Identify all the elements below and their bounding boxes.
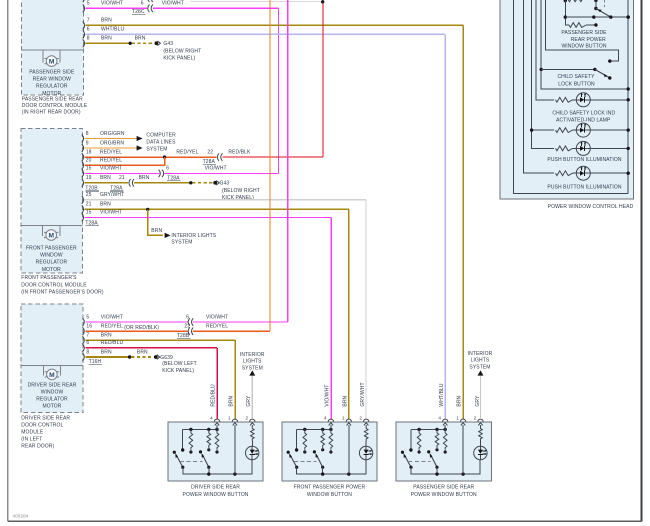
- svg-text:SYSTEM: SYSTEM: [146, 147, 167, 153]
- wire BRN pin21 long run: [85, 208, 349, 210]
- switch blade 2: [313, 450, 316, 453]
- svg-text:REAR DOOR): REAR DOOR): [21, 443, 54, 449]
- svg-text:6: 6: [87, 27, 90, 33]
- pin 2 entry of button at x=480.5: [478, 419, 483, 422]
- button: front passenger power window button: [282, 422, 377, 481]
- dashed BRN wire to ground G43: [132, 42, 154, 44]
- pin 2 entry of button at x=366.20000000000005: [364, 419, 369, 422]
- svg-text:20: 20: [86, 158, 92, 164]
- pin 1 entry of button at x=463.1: [460, 419, 465, 422]
- illumination resistor: [479, 425, 483, 441]
- svg-text:REGULATOR: REGULATOR: [36, 84, 68, 90]
- contact row wire y17: [565, 16, 628, 18]
- svg-text:7: 7: [86, 333, 89, 339]
- svg-text:PASSENGER SIDE: PASSENGER SIDE: [29, 69, 75, 75]
- wire RED/YEL from T28B to riser: [193, 330, 270, 332]
- pin 9 of module 2: [82, 144, 84, 152]
- svg-text:4: 4: [324, 416, 327, 421]
- svg-text:8: 8: [86, 349, 89, 355]
- svg-text:REGULATOR: REGULATOR: [36, 260, 68, 266]
- connector T28A pin22: [217, 153, 219, 161]
- arrow interior lights system button3: [478, 370, 484, 375]
- wire from resistor down to second resistor: [565, 0, 569, 25]
- arrow to interior lights system: [165, 233, 171, 238]
- pin 16 of module 3: [83, 327, 85, 335]
- module box: driver side rear door control module (in left rear door): [21, 304, 83, 413]
- splice junction pins 18/20: [163, 155, 166, 158]
- svg-text:RED/YEL: RED/YEL: [100, 158, 122, 164]
- svg-text:POWER WINDOW BUTTON: POWER WINDOW BUTTON: [183, 492, 249, 498]
- svg-text:BRN: BRN: [135, 36, 146, 42]
- wire RED/YEL riser to top of page: [269, 0, 271, 331]
- open contact dot below hinge: [594, 23, 597, 26]
- motor M1 passenger side rear window regulator motor: [21, 49, 83, 51]
- svg-text:6: 6: [186, 314, 189, 320]
- svg-text:G639: G639: [160, 355, 173, 361]
- connector T28A pin6 on VIO/WHT: [159, 170, 161, 178]
- svg-text:M: M: [48, 232, 54, 239]
- svg-text:GRY: GRY: [246, 395, 252, 407]
- svg-text:5: 5: [86, 314, 89, 320]
- pin 21 of module 2: [82, 205, 84, 213]
- right bus wire with corner to bottom rail: [627, 0, 629, 193]
- svg-text:(IN FRONT PASSENGER'S DOOR): (IN FRONT PASSENGER'S DOOR): [21, 289, 104, 295]
- pin 6 of module 3: [83, 344, 85, 352]
- contact dots on row y17: [592, 15, 595, 18]
- svg-text:RED/YEL: RED/YEL: [176, 149, 198, 155]
- wire ORG/BRN pin9 to computer data lines system: [85, 147, 137, 149]
- resistor R2 in button: [207, 429, 211, 447]
- wire VIO/WHT drop to front passenger button pin 4: [330, 217, 332, 419]
- push button illumination resistor row2: [556, 128, 573, 133]
- svg-text:VIO/WHT: VIO/WHT: [100, 210, 122, 216]
- pin 15 of module 2: [82, 169, 84, 177]
- svg-text:CHILD SAFETY: CHILD SAFETY: [557, 74, 595, 80]
- svg-text:8: 8: [87, 36, 90, 42]
- svg-text:6: 6: [141, 1, 144, 7]
- svg-text:1: 1: [342, 416, 345, 421]
- wire ORG/GRN pin8 to computer data lines system: [85, 138, 137, 140]
- resistor R2 in button: [321, 429, 325, 447]
- passenger side rear power window button resistor (cut at top): [565, 0, 568, 1]
- pin 1 drop wire: [348, 425, 350, 474]
- top bus node: [183, 428, 217, 430]
- wire BRN drop to driver rear button pin 1: [234, 340, 236, 419]
- svg-text:FRONT PASSENGER'S: FRONT PASSENGER'S: [21, 275, 77, 281]
- child safety lock ind LED: [576, 93, 590, 107]
- wire BRN pin19 to connector: [85, 182, 129, 184]
- svg-text:RED/YEL: RED/YEL: [100, 149, 122, 155]
- svg-text:RED/YEL: RED/YEL: [206, 324, 228, 330]
- svg-text:6: 6: [86, 340, 89, 346]
- svg-text:6: 6: [166, 166, 169, 172]
- svg-text:DRIVER SIDE REAR: DRIVER SIDE REAR: [28, 382, 77, 388]
- svg-text:DATA LINES: DATA LINES: [146, 140, 176, 146]
- svg-text:RED/BLU: RED/BLU: [211, 384, 217, 407]
- pin 6 of module 1: [83, 30, 85, 38]
- svg-text:22: 22: [207, 149, 213, 155]
- wire WHT/BLU pin6 long run to right: [86, 33, 446, 35]
- motor M2 front passenger window regulator motor: [21, 224, 83, 226]
- button: driver side rear power window button: [168, 422, 263, 481]
- pin 19 of module 2: [82, 179, 84, 187]
- illumination resistor: [364, 425, 368, 441]
- switch blade 2: [427, 450, 430, 453]
- svg-text:FRONT PASSENGER: FRONT PASSENGER: [26, 246, 77, 252]
- ganged switch dashed link: [408, 460, 430, 462]
- svg-text:M: M: [49, 59, 55, 66]
- svg-text:LIGHTS: LIGHTS: [243, 359, 262, 365]
- wire RED/BLK riser to top junction: [322, 2, 324, 157]
- resistor R2 in button: [435, 429, 439, 447]
- switch blade 1: [176, 455, 183, 468]
- svg-text:INTERIOR: INTERIOR: [468, 351, 493, 357]
- wire BRN pin7 to drop: [85, 339, 235, 341]
- ganged switch dashed link: [294, 460, 316, 462]
- push button illumination resistor row3: [556, 146, 573, 151]
- svg-text:400284: 400284: [13, 514, 29, 519]
- splice junction BRN pin8 module3: [128, 355, 131, 358]
- junction dot on contact row: [564, 15, 567, 18]
- wire GRY/WHT pin25 long run: [85, 199, 366, 201]
- connector T28B pin22: [188, 327, 190, 335]
- junction dot on bus C: [530, 128, 533, 131]
- ground G43 second (below right kick panel): [213, 181, 217, 185]
- push button illumination LED row2: [576, 123, 590, 137]
- svg-text:BRN: BRN: [101, 333, 112, 339]
- connector pin6 on VIO/WHT module3: [188, 318, 190, 326]
- wire RED/BLK from T28A to riser: [222, 156, 323, 158]
- svg-text:25: 25: [86, 192, 92, 198]
- svg-text:M: M: [49, 372, 55, 379]
- wire VIO/WHT vertical drop to module 2 pin 15 row: [278, 8, 280, 173]
- svg-text:WINDOW BUTTON: WINDOW BUTTON: [307, 492, 352, 498]
- bus wire A (leftmost) to bottom rail: [514, 0, 629, 193]
- svg-text:PASSENGER SIDE REAR: PASSENGER SIDE REAR: [413, 485, 474, 491]
- svg-text:7: 7: [87, 18, 90, 24]
- dashed BRN to ground G43: [192, 182, 213, 184]
- svg-text:9: 9: [86, 140, 89, 146]
- left pole drop: [410, 429, 412, 450]
- resistor R3 in button: [215, 429, 219, 449]
- push button illumination resistor row4: [556, 171, 573, 176]
- svg-text:BRN: BRN: [100, 175, 111, 181]
- svg-text:SYSTEM: SYSTEM: [171, 239, 192, 245]
- svg-text:REAR WINDOW: REAR WINDOW: [33, 77, 71, 83]
- svg-text:RED/BLU: RED/BLU: [101, 340, 124, 346]
- svg-text:VIO/WHT: VIO/WHT: [100, 166, 122, 172]
- pin 8 of module 2: [82, 135, 84, 143]
- svg-text:WINDOW: WINDOW: [41, 389, 64, 395]
- switch hinge of passenger rear window button: [595, 1, 597, 9]
- splice junction on BRN pin19: [189, 181, 192, 184]
- pin 1 entry of button at x=234.9: [232, 419, 237, 422]
- svg-text:ORG/BRN: ORG/BRN: [100, 140, 124, 146]
- second resistor of window button: [569, 23, 586, 28]
- top bus node: [411, 428, 445, 430]
- wire RED/YEL pin16 to connector: [85, 330, 187, 332]
- pin 8 of module 1: [83, 39, 85, 47]
- top bus node: [297, 428, 331, 430]
- splice junction on BRN: [129, 42, 132, 45]
- svg-text:21: 21: [119, 175, 125, 181]
- ground G639 (below left kick panel): [154, 355, 158, 359]
- svg-text:FRONT PASSENGER POWER: FRONT PASSENGER POWER: [294, 485, 366, 491]
- pin 8 of module 3: [83, 353, 85, 361]
- arrow to computer data lines system 2: [137, 145, 143, 150]
- svg-text:22: 22: [184, 324, 190, 330]
- svg-text:BRN: BRN: [457, 395, 463, 406]
- svg-text:BRN: BRN: [139, 175, 150, 181]
- svg-text:GRY/WHT: GRY/WHT: [360, 382, 366, 406]
- connector T28C: [148, 5, 150, 13]
- svg-text:(IN RIGHT REAR DOOR): (IN RIGHT REAR DOOR): [22, 109, 81, 115]
- dashed BRN to ground G639: [131, 356, 153, 358]
- bus wire C to illumination rows 2 and 3: [532, 0, 554, 148]
- svg-text:1: 1: [228, 416, 231, 421]
- svg-text:RED/YEL: RED/YEL: [101, 324, 123, 330]
- svg-text:1: 1: [456, 416, 459, 421]
- GRY wire to interior lights arrow button3: [480, 376, 482, 420]
- svg-text:VIO/WHT: VIO/WHT: [101, 314, 123, 320]
- wire VIO/WHT pin5 to connector T28C: [86, 7, 147, 9]
- svg-text:DRIVER SIDE REAR: DRIVER SIDE REAR: [191, 485, 240, 491]
- svg-text:MODULE: MODULE: [21, 429, 44, 435]
- svg-text:WINDOW BUTTON: WINDOW BUTTON: [561, 43, 606, 49]
- bus wire B to illumination row 4: [523, 0, 554, 173]
- resistor R1 in button: [189, 429, 193, 449]
- svg-text:WINDOW: WINDOW: [40, 253, 63, 259]
- svg-text:KICK PANEL): KICK PANEL): [163, 56, 195, 62]
- wire RED/YEL pin20 joining splice: [85, 157, 165, 165]
- svg-text:(OR RED/BLK): (OR RED/BLK): [124, 325, 159, 331]
- svg-text:DOOR CONTROL MODULE: DOOR CONTROL MODULE: [22, 103, 88, 109]
- svg-text:GRY/WHT: GRY/WHT: [100, 192, 124, 198]
- svg-text:DRIVER SIDE REAR: DRIVER SIDE REAR: [21, 415, 70, 421]
- left pole drop: [296, 429, 298, 450]
- wire BRN pin8 to splice: [86, 42, 131, 44]
- pin 20 of module 2: [82, 161, 84, 169]
- svg-text:PASSENGER SIDE REAR: PASSENGER SIDE REAR: [22, 97, 83, 103]
- svg-text:15: 15: [86, 210, 92, 216]
- svg-text:21: 21: [86, 202, 92, 208]
- splice junction on BRN pin21: [146, 208, 149, 211]
- illumination resistor: [251, 425, 255, 441]
- junction dot on bus E at switch feed: [540, 68, 543, 71]
- pin 15 T28A of module 2: [82, 213, 84, 221]
- GRY wire to interior lights arrow button1: [251, 376, 253, 420]
- wire RED/BLU drop to driver rear button pin 4: [216, 348, 218, 420]
- pin 1 entry of button at x=348.8: [346, 419, 351, 422]
- svg-text:VIO/WHT: VIO/WHT: [101, 1, 123, 7]
- pin 4 entry of button at x=445.2: [443, 419, 448, 422]
- svg-text:BRN: BRN: [101, 36, 112, 42]
- svg-text:G43: G43: [163, 41, 173, 47]
- svg-text:PASSENGER SIDE: PASSENGER SIDE: [561, 30, 607, 36]
- svg-text:REAR POWER: REAR POWER: [571, 37, 606, 43]
- svg-text:18: 18: [86, 149, 92, 155]
- svg-text:MOTOR: MOTOR: [42, 403, 61, 409]
- pin 7 of module 1: [83, 21, 85, 29]
- bottom bus: [297, 460, 366, 474]
- svg-text:INTERIOR LIGHTS: INTERIOR LIGHTS: [171, 233, 216, 239]
- pin 1 drop wire: [462, 425, 464, 474]
- svg-text:8: 8: [86, 131, 89, 137]
- pin bracket cut at top edge of module 1: [83, 0, 85, 2]
- wire BRN vertical drop to passenger rear button pin 1: [462, 25, 464, 419]
- svg-text:RED/BLK: RED/BLK: [228, 149, 251, 155]
- wire VIO/WHT riser to top of page: [287, 0, 289, 322]
- resistor R1 in button: [303, 429, 307, 449]
- wire RED/BLU pin6 to drop: [85, 347, 217, 349]
- illumination LED: [359, 446, 372, 459]
- pin 5 of module 1: [83, 4, 85, 12]
- svg-text:REGULATOR: REGULATOR: [36, 396, 68, 402]
- module box: passenger side rear door control module (in right rear door): [21, 0, 83, 95]
- switch blade 1: [290, 455, 297, 468]
- pin 18 of module 2: [82, 153, 84, 161]
- wire BRN branch to interior lights system: [148, 209, 163, 235]
- pin 5 of module 3: [83, 318, 85, 326]
- svg-text:(BELOW LEFT: (BELOW LEFT: [162, 361, 196, 367]
- resistor R3 in button: [443, 429, 447, 449]
- left pole drop: [182, 429, 184, 450]
- arrow to computer data lines system: [137, 136, 143, 141]
- pin 25 of module 2: [82, 196, 84, 204]
- wire BRN drop to front passenger button pin 1: [348, 209, 350, 419]
- button: passenger side rear power window button: [396, 422, 491, 481]
- svg-text:SYSTEM: SYSTEM: [242, 366, 263, 372]
- switch contact left: [287, 451, 290, 454]
- svg-text:(BELOW RIGHT: (BELOW RIGHT: [163, 49, 201, 55]
- bottom bus: [411, 460, 480, 474]
- svg-text:19: 19: [86, 175, 92, 181]
- illumination LED: [246, 446, 259, 459]
- svg-text:LIGHTS: LIGHTS: [471, 358, 490, 364]
- connector arcs cut at top edge: [148, 0, 150, 2]
- svg-text:4: 4: [210, 416, 213, 421]
- svg-text:(IN LEFT: (IN LEFT: [21, 436, 42, 442]
- pin 4 entry of button at x=217.0: [214, 419, 219, 422]
- svg-text:BRN: BRN: [342, 395, 348, 406]
- svg-text:INTERIOR: INTERIOR: [240, 352, 265, 358]
- switch blade of passenger rear window button: [596, 9, 611, 18]
- box: power window control head: [500, 0, 633, 199]
- svg-text:(BELOW RIGHT: (BELOW RIGHT: [222, 188, 260, 194]
- module box: front passenger's door control module (in front passenger's door): [21, 129, 83, 273]
- pin 4 entry of button at x=330.9: [328, 419, 333, 422]
- svg-text:2: 2: [245, 416, 248, 421]
- pin 2 entry of button at x=252.3: [250, 419, 255, 422]
- svg-text:MOTOR: MOTOR: [42, 267, 61, 273]
- svg-text:2: 2: [359, 416, 362, 421]
- svg-text:G43: G43: [220, 181, 230, 187]
- svg-text:POWER WINDOW BUTTON: POWER WINDOW BUTTON: [411, 492, 477, 498]
- resistor R1 in button: [417, 429, 421, 449]
- motor M3 driver side rear window regulator motor: [21, 365, 83, 367]
- svg-text:DOOR CONTROL MODULE: DOOR CONTROL MODULE: [21, 282, 87, 288]
- connector T20B/T28A on BRN: [129, 179, 131, 187]
- ground G43 (below right kick panel): [155, 41, 159, 45]
- svg-text:BRN: BRN: [228, 395, 234, 406]
- svg-text:15: 15: [86, 166, 92, 172]
- svg-text:16: 16: [86, 324, 92, 330]
- ganged switch dashed link: [180, 460, 202, 462]
- svg-text:ORG/GRN: ORG/GRN: [100, 131, 125, 137]
- svg-text:WHT/BLU: WHT/BLU: [101, 27, 124, 33]
- wire WHT/BLU vertical drop to passenger rear button pin 4: [444, 34, 446, 419]
- switch blade 1: [404, 455, 411, 468]
- wire BRN pin8 to splice: [85, 356, 129, 358]
- contact dot child safety switch upper: [608, 59, 611, 62]
- pin 1 drop wire: [234, 425, 236, 474]
- svg-text:BRN: BRN: [101, 349, 112, 355]
- bottom bus: [183, 460, 252, 474]
- switch contact left: [173, 451, 176, 454]
- pin 7 of module 3: [83, 336, 85, 344]
- svg-text:BRN: BRN: [100, 202, 111, 208]
- svg-text:4: 4: [438, 416, 441, 421]
- svg-text:VIO/WHT: VIO/WHT: [162, 1, 184, 7]
- wire WHT running left from top junction: [191, 0, 322, 2]
- svg-text:PUSH BUTTON ILLUMINATION: PUSH BUTTON ILLUMINATION: [547, 157, 621, 163]
- svg-text:WHT/BLU: WHT/BLU: [439, 383, 445, 406]
- svg-text:DOOR CONTROL: DOOR CONTROL: [21, 422, 63, 428]
- push button illumination LED row3: [576, 141, 590, 155]
- svg-text:BRN: BRN: [101, 18, 112, 24]
- child safety lock ind resistor: [556, 97, 573, 102]
- wire LED row1 to right bus: [590, 99, 628, 101]
- switch blade 2: [199, 450, 202, 453]
- bus wire F to child safety switch upper contact: [546, 0, 619, 61]
- bus wire E to child safety switch and row: [541, 0, 628, 89]
- svg-text:COMPUTER: COMPUTER: [146, 133, 176, 139]
- wire VIO/WHT pin15 to connector: [85, 172, 160, 174]
- svg-text:BRN: BRN: [151, 228, 162, 234]
- svg-text:KICK PANEL): KICK PANEL): [162, 368, 194, 374]
- bus wire D to child safety lock ind row: [536, 0, 554, 100]
- mechanical link dashed (cut at top): [604, 0, 606, 7]
- wire VIO/WHT pin5 to connector: [85, 321, 187, 323]
- wire GRY/WHT drop to front passenger button pin 2: [365, 200, 367, 419]
- svg-text:BRN: BRN: [137, 349, 148, 355]
- svg-text:SYSTEM: SYSTEM: [469, 364, 490, 370]
- push button illumination LED row4: [576, 166, 590, 180]
- wire BRN from connector to splice: [134, 182, 191, 184]
- junction dots on bus E row: [627, 87, 630, 90]
- child safety lock switch: [541, 68, 595, 70]
- junction dot at top of RED/BLK riser: [321, 0, 324, 3]
- wire VIO/WHT from connector to riser: [193, 321, 288, 323]
- svg-text:LOCK BUTTON: LOCK BUTTON: [558, 82, 595, 88]
- svg-text:5: 5: [87, 1, 90, 7]
- svg-text:VIO/WHT: VIO/WHT: [205, 166, 227, 172]
- arrow interior lights system button1: [249, 370, 255, 375]
- svg-text:VIO/WHT: VIO/WHT: [206, 314, 228, 320]
- wire BRN pin7 long run to right: [86, 24, 464, 26]
- svg-text:VIO/WHT: VIO/WHT: [325, 385, 331, 407]
- wire RED/YEL pin18 to splice: [85, 156, 217, 158]
- svg-text:POWER WINDOW CONTROL HEAD: POWER WINDOW CONTROL HEAD: [548, 204, 634, 210]
- svg-text:PUSH BUTTON ILLUMINATION: PUSH BUTTON ILLUMINATION: [547, 184, 621, 190]
- wire VIO/WHT from T28C to corner x278: [153, 7, 279, 9]
- resistor R3 in button: [329, 429, 333, 449]
- illumination LED: [474, 446, 487, 459]
- switch contact left: [401, 451, 404, 454]
- svg-text:2: 2: [474, 416, 477, 421]
- svg-text:CHILD SAFETY LOCK IND: CHILD SAFETY LOCK IND: [552, 110, 615, 116]
- wire VIO/WHT pin15b long run: [85, 216, 332, 218]
